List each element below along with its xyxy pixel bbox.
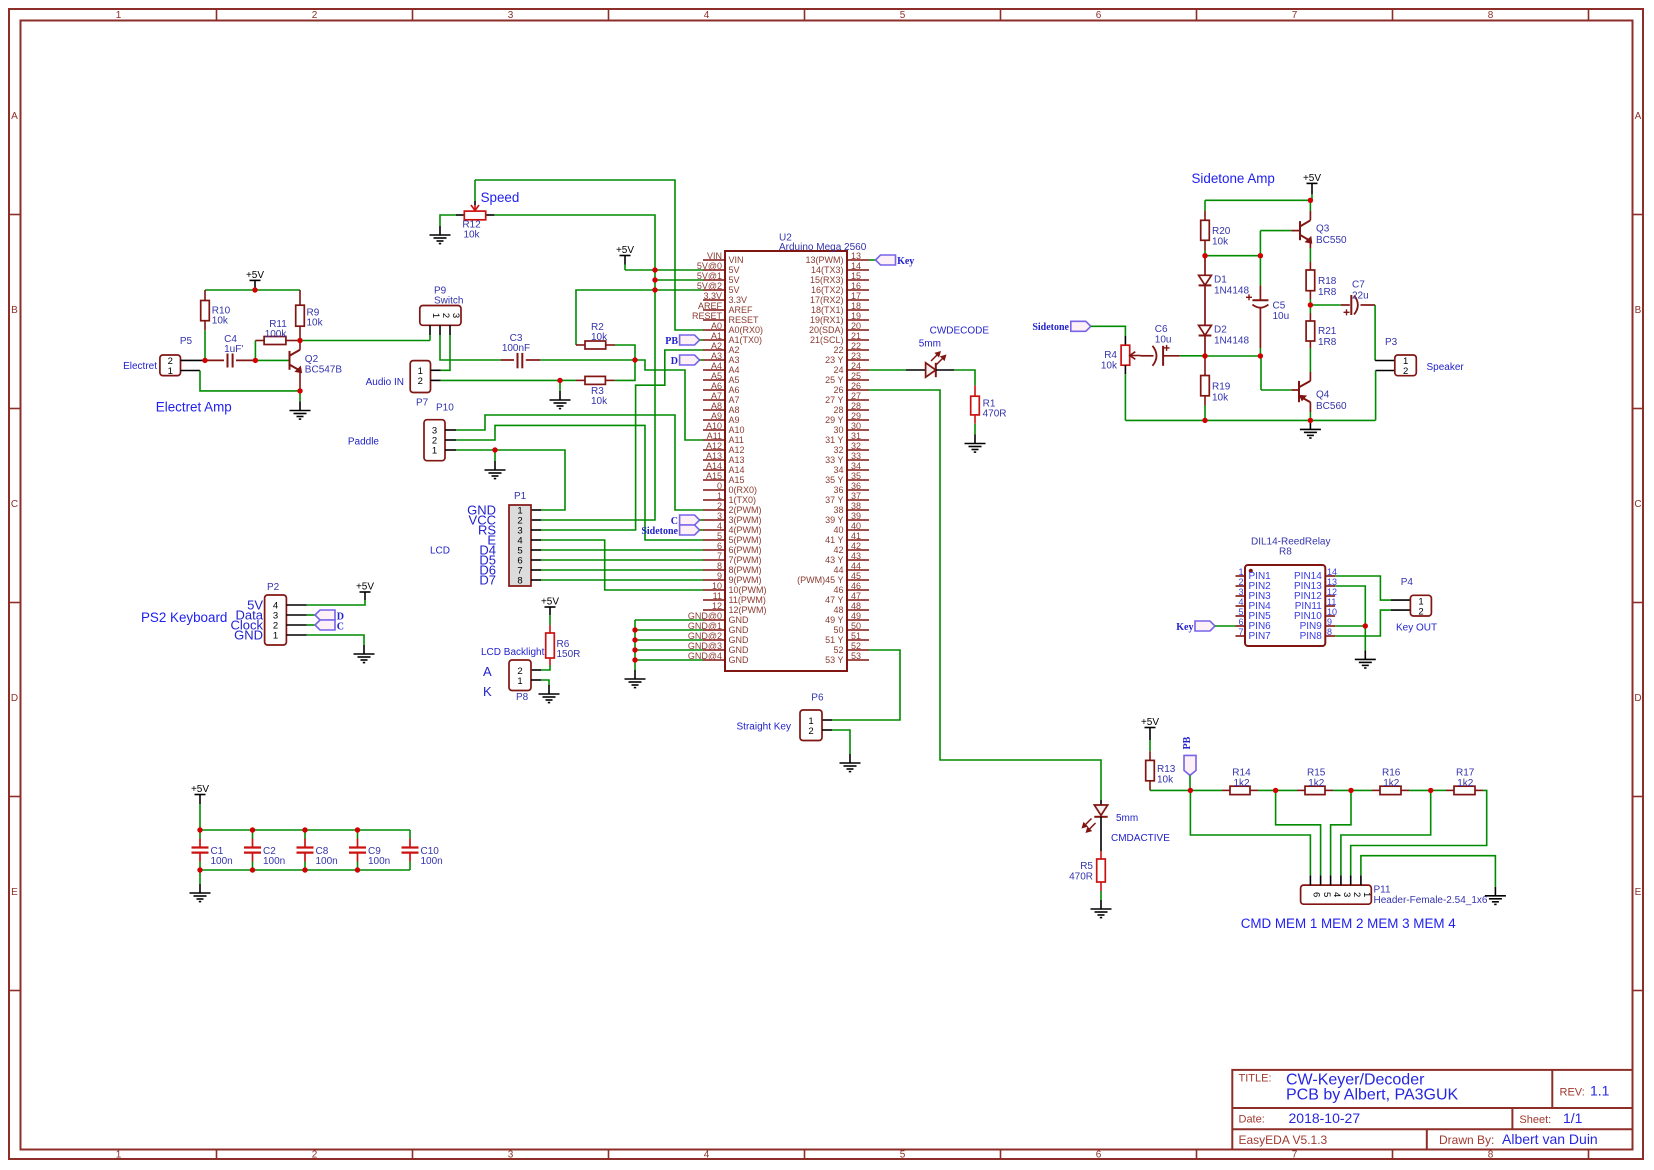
svg-text:REV:: REV:	[1560, 1087, 1585, 1099]
svg-text:13: 13	[851, 251, 861, 261]
transistor Q3 BC550	[1300, 220, 1310, 241]
pin 10 (U2 left)	[703, 589, 725, 591]
svg-text:GND: GND	[729, 625, 750, 635]
svg-text:8: 8	[1488, 1150, 1494, 1161]
svg-text:6: 6	[1311, 892, 1322, 897]
svg-text:1/1: 1/1	[1563, 1110, 1583, 1126]
wire P5 pin1 to emitter rail	[181, 370, 201, 372]
svg-text:27 Y: 27 Y	[825, 395, 843, 405]
ground (Q2 emitter)	[290, 402, 311, 420]
svg-text:7(PWM): 7(PWM)	[729, 555, 762, 565]
wire Q2 collector out to P9 pin1	[300, 340, 430, 342]
svg-text:28: 28	[833, 405, 843, 415]
svg-text:10u: 10u	[1273, 311, 1290, 322]
svg-text:1: 1	[116, 1150, 122, 1161]
svg-text:CMDACTIVE: CMDACTIVE	[1111, 833, 1170, 844]
ground (P6)	[840, 754, 861, 772]
svg-text:Header-Female-2.54_1x6: Header-Female-2.54_1x6	[1374, 895, 1488, 906]
wire P10 pin2 to pin5(PWM)	[445, 439, 456, 441]
wire P1 pin5 (D4) to pin6	[531, 549, 541, 551]
svg-text:6: 6	[1238, 617, 1243, 627]
pin 11 (R8 right)	[1325, 605, 1335, 607]
wire base node to Q2	[255, 359, 289, 361]
svg-text:LCD: LCD	[430, 546, 450, 557]
capacitor C8 100n	[304, 830, 306, 839]
svg-text:Audio IN: Audio IN	[366, 377, 404, 388]
potentiometer R4 10k	[1124, 336, 1126, 345]
svg-text:A0: A0	[711, 321, 722, 331]
wire PIN8 to P4 pin2	[1335, 610, 1391, 636]
svg-text:34: 34	[833, 465, 843, 475]
svg-text:15: 15	[851, 271, 861, 281]
resistor R18 1R8	[1309, 248, 1311, 262]
svg-text:6: 6	[1096, 10, 1102, 21]
pin 39 (U2 right)	[847, 519, 869, 521]
svg-text:A4: A4	[711, 361, 722, 371]
resistor R16 1k2	[1351, 789, 1372, 791]
svg-text:VIN: VIN	[729, 255, 744, 265]
resistor R9 10k	[299, 290, 301, 305]
wire R17 to P11 pin2	[1351, 790, 1487, 875]
wire sidetone flag to R4	[1091, 326, 1126, 336]
pin A5 (U2 left)	[703, 379, 725, 381]
capacitor C2 100n	[252, 830, 254, 839]
wire LED to R1	[954, 370, 975, 385]
svg-text:2: 2	[418, 376, 423, 387]
svg-text:23: 23	[851, 351, 861, 361]
svg-text:49 Y: 49 Y	[825, 615, 843, 625]
svg-text:A9: A9	[729, 415, 740, 425]
pin 27 (U2 right)	[847, 399, 869, 401]
svg-text:10k: 10k	[212, 316, 229, 327]
svg-text:1: 1	[168, 366, 173, 377]
wire P2 pin2 Clock	[286, 624, 306, 626]
svg-text:29 Y: 29 Y	[825, 415, 843, 425]
pin 45 (U2 right)	[847, 579, 869, 581]
svg-text:Straight Key: Straight Key	[737, 722, 791, 733]
wire R13 to bus	[1150, 789, 1190, 791]
svg-text:1k2: 1k2	[1308, 778, 1325, 789]
svg-text:GND: GND	[234, 628, 263, 643]
pin A2 (U2 left)	[703, 349, 725, 351]
node Key flag (relay)	[1195, 621, 1215, 631]
svg-text:4: 4	[717, 521, 722, 531]
svg-text:AREF: AREF	[729, 305, 754, 315]
svg-text:5V: 5V	[729, 285, 740, 295]
svg-text:P6: P6	[811, 693, 824, 704]
svg-text:4: 4	[704, 10, 710, 21]
svg-text:Date:: Date:	[1239, 1114, 1265, 1126]
pin 14 (U2 right)	[847, 269, 869, 271]
svg-text:A8: A8	[711, 401, 722, 411]
wire P9 pin2 to C3	[440, 335, 501, 360]
svg-text:10k: 10k	[307, 318, 324, 329]
wire C3 to audio node	[540, 359, 635, 361]
wire P1 VCC stub	[531, 519, 541, 521]
pin 51 (U2 right)	[847, 639, 869, 641]
svg-text:C: C	[337, 621, 344, 632]
svg-text:8: 8	[717, 561, 722, 571]
svg-text:10(PWM): 10(PWM)	[729, 585, 767, 595]
pin 53 (U2 right)	[847, 659, 869, 661]
svg-text:0(RX0): 0(RX0)	[729, 485, 758, 495]
ground (cap bank)	[190, 884, 211, 902]
svg-text:12: 12	[712, 601, 722, 611]
wire diode node row	[1205, 355, 1261, 357]
connector P9 Switch	[420, 306, 461, 326]
svg-text:28: 28	[851, 401, 861, 411]
wire PIN14 to P4 pin1	[1335, 576, 1391, 600]
svg-text:16: 16	[851, 281, 861, 291]
wire R6 to P8 pin2	[541, 665, 550, 670]
svg-text:A13: A13	[706, 451, 722, 461]
svg-text:1: 1	[1238, 567, 1243, 577]
pin 32 (U2 right)	[847, 449, 869, 451]
svg-text:3: 3	[1341, 892, 1352, 897]
pin 7 (U2 left)	[703, 559, 725, 561]
svg-text:38: 38	[833, 505, 843, 515]
pin 31 (U2 right)	[847, 439, 869, 441]
svg-text:D2: D2	[1214, 325, 1227, 336]
resistor R2 10k	[576, 344, 585, 346]
node Key flag (pin13)	[869, 259, 876, 261]
pin 22 (U2 right)	[847, 349, 869, 351]
svg-text:27: 27	[851, 391, 861, 401]
svg-text:1: 1	[517, 676, 522, 687]
svg-text:3: 3	[450, 313, 461, 318]
pin 12 (U2 left)	[703, 609, 725, 611]
svg-text:4: 4	[704, 1150, 710, 1161]
pin 37 (U2 right)	[847, 499, 869, 501]
svg-text:BC547B: BC547B	[305, 365, 343, 376]
svg-text:39: 39	[851, 511, 861, 521]
svg-text:A14: A14	[706, 461, 722, 471]
pin 8 (U2 left)	[703, 569, 725, 571]
ground (P2)	[354, 645, 375, 663]
svg-text:1: 1	[717, 491, 722, 501]
svg-text:GND: GND	[729, 655, 750, 665]
connector P11 Header-Female-2.54_1x6	[1301, 885, 1372, 904]
svg-text:3.3V: 3.3V	[703, 291, 722, 301]
svg-text:(PWM)45 Y: (PWM)45 Y	[797, 575, 843, 585]
pin A4 (U2 left)	[703, 369, 725, 371]
pin 1 (U2 left)	[703, 499, 725, 501]
svg-text:PCB by Albert, PA3GUK: PCB by Albert, PA3GUK	[1286, 1087, 1459, 1104]
wire pin24 to LED	[869, 369, 906, 371]
svg-text:7: 7	[717, 551, 722, 561]
svg-text:A: A	[1635, 111, 1642, 122]
pin 13 (R8 right)	[1325, 585, 1335, 587]
pin 26 (U2 right)	[847, 389, 869, 391]
wire base tap vertical	[1259, 231, 1261, 286]
svg-text:GND: GND	[729, 635, 750, 645]
svg-text:10k: 10k	[1212, 393, 1229, 404]
pin 46 (U2 right)	[847, 589, 869, 591]
svg-text:A: A	[11, 111, 18, 122]
svg-text:1.1: 1.1	[1590, 1083, 1610, 1099]
svg-text:P8: P8	[516, 692, 529, 703]
svg-text:22: 22	[833, 345, 843, 355]
svg-text:470R: 470R	[983, 409, 1007, 420]
svg-text:20: 20	[851, 321, 861, 331]
svg-text:2: 2	[312, 10, 318, 21]
svg-text:PIN7: PIN7	[1249, 631, 1272, 642]
resistor R15 1k2	[1276, 789, 1297, 791]
wire C6 to diode node	[1180, 355, 1205, 357]
svg-text:R8: R8	[1279, 547, 1292, 558]
svg-text:10k: 10k	[1157, 775, 1174, 786]
svg-text:A6: A6	[729, 385, 740, 395]
svg-text:AREF: AREF	[698, 301, 723, 311]
pin 1 (R8 left)	[1236, 575, 1246, 577]
svg-text:PB: PB	[665, 336, 678, 347]
svg-text:D: D	[11, 693, 18, 704]
pin 0 (U2 left)	[703, 489, 725, 491]
svg-text:A5: A5	[729, 375, 740, 385]
svg-text:11: 11	[713, 591, 722, 601]
resistor R21 1R8	[1309, 305, 1311, 313]
ground (R5)	[1091, 900, 1112, 918]
svg-text:44: 44	[833, 565, 843, 575]
svg-text:A3: A3	[729, 355, 740, 365]
svg-text:10u: 10u	[1155, 335, 1172, 346]
svg-text:3: 3	[508, 1150, 514, 1161]
pin 9 (U2 left)	[703, 579, 725, 581]
svg-text:48: 48	[851, 601, 861, 611]
svg-text:100n: 100n	[421, 856, 443, 867]
svg-text:41 Y: 41 Y	[825, 535, 843, 545]
pin A0 (U2 left)	[703, 329, 725, 331]
svg-text:41: 41	[851, 531, 861, 541]
title block	[1232, 1070, 1632, 1150]
svg-text:150R: 150R	[557, 649, 581, 660]
wire R16/R17 node to P11 pin3	[1341, 790, 1431, 875]
pin 4 (U2 left)	[703, 529, 725, 531]
pin 6 (U2 left)	[703, 549, 725, 551]
wire ground tap (P10 pin1)	[494, 450, 496, 461]
transistor Q2 BC547B	[290, 350, 301, 371]
svg-text:BC560: BC560	[1316, 401, 1347, 412]
wire P9 pin3 to P7 pin1	[441, 335, 450, 370]
svg-text:100k: 100k	[265, 329, 288, 340]
pin 35 (U2 right)	[847, 479, 869, 481]
svg-text:2: 2	[1418, 606, 1423, 617]
pin 38 (U2 right)	[847, 509, 869, 511]
svg-text:24: 24	[833, 365, 843, 375]
svg-text:21: 21	[851, 331, 861, 341]
capacitor C10 100n	[409, 830, 411, 839]
svg-text:5V: 5V	[729, 275, 740, 285]
svg-text:1N4148: 1N4148	[1214, 336, 1249, 347]
pin 21 (U2 right)	[847, 339, 869, 341]
svg-text:5: 5	[1321, 892, 1332, 897]
svg-text:1N4148: 1N4148	[1214, 286, 1249, 297]
wire Q2 emitter to ground	[299, 391, 301, 402]
svg-text:6: 6	[717, 541, 722, 551]
svg-text:Sidetone Amp: Sidetone Amp	[1192, 171, 1275, 186]
wire audio node to A11	[635, 360, 703, 440]
wire P5 pin2 stub	[181, 359, 206, 361]
wire PB node to P11 pin6	[1190, 790, 1310, 875]
svg-text:A8: A8	[729, 405, 740, 415]
svg-text:8(PWM): 8(PWM)	[729, 565, 762, 575]
svg-text:+5V: +5V	[616, 245, 634, 256]
svg-text:2(PWM): 2(PWM)	[729, 505, 762, 515]
svg-text:43: 43	[851, 551, 861, 561]
svg-text:+5V: +5V	[1303, 173, 1321, 184]
svg-text:A15: A15	[706, 471, 722, 481]
svg-text:Q4: Q4	[1316, 390, 1330, 401]
resistor R13 10k	[1149, 740, 1151, 751]
pin 18 (U2 right)	[847, 309, 869, 311]
svg-text:5V: 5V	[729, 265, 740, 275]
svg-text:P10: P10	[436, 403, 454, 414]
svg-text:A14: A14	[729, 465, 745, 475]
svg-text:Drawn By:: Drawn By:	[1439, 1133, 1494, 1147]
svg-text:A7: A7	[711, 391, 722, 401]
wire output node to C7	[1310, 304, 1341, 306]
svg-text:A10: A10	[729, 425, 745, 435]
wire bus seg1	[1258, 789, 1276, 791]
svg-text:A12: A12	[729, 445, 745, 455]
svg-text:37 Y: 37 Y	[825, 495, 843, 505]
svg-text:1k2: 1k2	[1457, 778, 1474, 789]
svg-text:R20: R20	[1212, 226, 1231, 237]
connector P3 Speaker	[1395, 355, 1417, 376]
svg-text:RESET: RESET	[692, 311, 723, 321]
pin 5V@0 (U2 left)	[703, 269, 725, 271]
svg-text:D: D	[1634, 693, 1641, 704]
svg-text:50: 50	[851, 621, 861, 631]
svg-text:PB: PB	[1182, 736, 1193, 749]
svg-text:+5V: +5V	[191, 784, 209, 795]
svg-text:Q3: Q3	[1316, 224, 1330, 235]
svg-text:53: 53	[851, 651, 861, 661]
svg-text:17: 17	[851, 291, 861, 301]
svg-text:2018-10-27: 2018-10-27	[1289, 1110, 1361, 1126]
wire bias node row	[1205, 255, 1260, 257]
svg-text:1k2: 1k2	[1234, 778, 1251, 789]
ground (U2 GND bus)	[625, 670, 646, 688]
svg-text:TITLE:: TITLE:	[1239, 1073, 1272, 1085]
svg-text:Key: Key	[1176, 622, 1193, 633]
svg-text:1k2: 1k2	[1383, 778, 1400, 789]
pin A10 (U2 left)	[703, 429, 725, 431]
svg-text:32: 32	[833, 445, 843, 455]
connector P2 PS2 Keyboard	[265, 595, 287, 645]
svg-text:51: 51	[851, 631, 861, 641]
svg-text:25: 25	[851, 371, 861, 381]
pin A3 (U2 left)	[703, 359, 725, 361]
svg-text:40: 40	[851, 521, 861, 531]
resistor R12 10k potentiometer	[456, 214, 465, 216]
pin 5 (U2 left)	[703, 539, 725, 541]
svg-text:21(SCL): 21(SCL)	[810, 335, 844, 345]
svg-text:BC550: BC550	[1316, 235, 1347, 246]
svg-text:37: 37	[851, 491, 861, 501]
wire A2 to P1 RS	[541, 350, 703, 530]
svg-text:38: 38	[851, 501, 861, 511]
svg-text:100n: 100n	[211, 856, 233, 867]
pin 28 (U2 right)	[847, 409, 869, 411]
svg-text:A2: A2	[711, 341, 722, 351]
svg-text:GND: GND	[729, 615, 750, 625]
svg-text:R5: R5	[1080, 861, 1093, 872]
svg-text:49: 49	[851, 611, 861, 621]
wire R2 to audio node	[615, 345, 635, 360]
pin A11 (U2 left)	[703, 439, 725, 441]
svg-text:3.3V: 3.3V	[729, 295, 748, 305]
pin GND@3 (U2 left)	[703, 649, 725, 651]
svg-text:6: 6	[1096, 1150, 1102, 1161]
pin 42 (U2 right)	[847, 549, 869, 551]
node PB flag (bottom)	[1184, 755, 1196, 775]
svg-text:E: E	[1635, 887, 1642, 898]
svg-text:B: B	[11, 305, 18, 316]
connector P4 Key OUT	[1410, 595, 1431, 616]
svg-text:9: 9	[717, 571, 722, 581]
pin 11 (U2 left)	[703, 599, 725, 601]
pin 4 (R8 left)	[1236, 605, 1246, 607]
svg-text:40: 40	[833, 525, 843, 535]
pin 40 (U2 right)	[847, 529, 869, 531]
wire Q4 base lead	[1260, 356, 1262, 390]
wire P1 pin3 stub	[531, 529, 541, 531]
node C flag (P2 clock)	[315, 620, 335, 630]
svg-text:52: 52	[851, 641, 861, 651]
pin 44 (U2 right)	[847, 569, 869, 571]
wire pin52 to P6	[832, 650, 900, 720]
svg-text:25 Y: 25 Y	[825, 375, 843, 385]
svg-text:46: 46	[833, 585, 843, 595]
wire 5V@2 / R2 pullup	[576, 290, 703, 345]
svg-text:4(PWM): 4(PWM)	[729, 525, 762, 535]
resistor R1 470R	[974, 385, 976, 396]
pin A8 (U2 left)	[703, 409, 725, 411]
wire R3 node ground tap	[559, 380, 561, 391]
svg-text:GND: GND	[729, 645, 750, 655]
svg-text:Paddle: Paddle	[348, 437, 380, 448]
svg-text:A15: A15	[729, 475, 745, 485]
wire bus seg3	[1409, 789, 1431, 791]
svg-text:A12: A12	[706, 441, 722, 451]
svg-text:P5: P5	[180, 336, 193, 347]
pin 6 (R8 left)	[1236, 625, 1246, 627]
wire P10 pin3 to pin2(PWM)	[445, 429, 456, 431]
wire R10 to base node	[204, 330, 206, 360]
svg-text:6(PWM): 6(PWM)	[729, 545, 762, 555]
svg-text:16(TX2): 16(TX2)	[811, 285, 844, 295]
svg-text:Electret: Electret	[123, 361, 157, 372]
pin 16 (U2 right)	[847, 289, 869, 291]
pin RESET (U2 left)	[703, 319, 725, 321]
wire R12 wiper rail to +5V rail	[494, 215, 655, 520]
svg-text:12(PWM): 12(PWM)	[729, 605, 767, 615]
svg-text:44: 44	[851, 561, 861, 571]
svg-text:Speaker: Speaker	[1427, 362, 1465, 373]
node D flag (A3)	[680, 355, 700, 365]
svg-text:31: 31	[851, 431, 861, 441]
node PB flag (A1)	[680, 335, 700, 345]
svg-text:42: 42	[833, 545, 843, 555]
svg-text:17(RX2): 17(RX2)	[810, 295, 844, 305]
resistor R10 10k	[204, 290, 206, 301]
svg-text:11: 11	[1327, 597, 1336, 607]
svg-text:1(TX0): 1(TX0)	[729, 495, 757, 505]
svg-text:C6: C6	[1155, 324, 1168, 335]
pin 29 (U2 right)	[847, 419, 869, 421]
svg-text:10: 10	[712, 581, 722, 591]
